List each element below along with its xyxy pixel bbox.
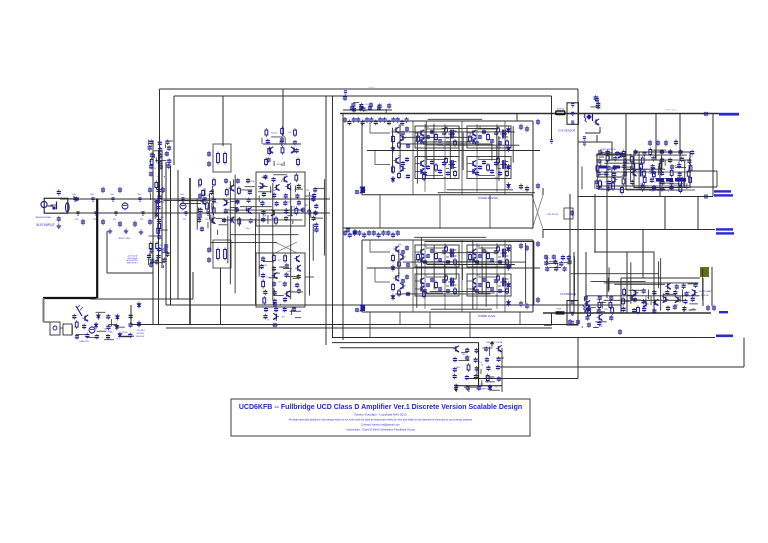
svg-text:C9: C9 xyxy=(501,279,503,281)
svg-text:POWER SLAVE: POWER SLAVE xyxy=(478,315,496,318)
svg-text:POWER MASTER: POWER MASTER xyxy=(478,197,498,200)
svg-text:BC546: BC546 xyxy=(633,293,639,295)
svg-text:100n: 100n xyxy=(108,331,112,333)
svg-text:+15V REG: +15V REG xyxy=(136,330,145,332)
svg-text:1N4148: 1N4148 xyxy=(495,147,501,149)
svg-text:4K7: 4K7 xyxy=(281,316,284,318)
svg-text:-15V REG: -15V REG xyxy=(136,333,145,335)
svg-text:D5: D5 xyxy=(286,275,288,277)
svg-text:R33: R33 xyxy=(621,307,624,309)
svg-text:Q7: Q7 xyxy=(425,275,427,277)
svg-text:R33: R33 xyxy=(692,309,695,311)
svg-text:100n: 100n xyxy=(266,277,270,279)
svg-text:100n: 100n xyxy=(72,194,76,196)
svg-text:100n: 100n xyxy=(197,208,201,210)
svg-text:C45: C45 xyxy=(495,266,498,268)
svg-text:47u: 47u xyxy=(313,230,316,232)
svg-text:10n: 10n xyxy=(281,145,284,147)
svg-text:R33: R33 xyxy=(601,189,604,191)
svg-text:47u: 47u xyxy=(365,104,368,106)
svg-text:4K7: 4K7 xyxy=(279,282,282,284)
svg-text:R33: R33 xyxy=(599,326,602,328)
svg-text:10n: 10n xyxy=(501,162,504,164)
svg-text:100R: 100R xyxy=(262,216,267,218)
svg-text:47u: 47u xyxy=(645,297,648,299)
svg-text:100n: 100n xyxy=(180,194,184,196)
svg-text:+ HVDC BUS: + HVDC BUS xyxy=(664,110,677,112)
svg-text:D5: D5 xyxy=(481,365,483,367)
svg-text:OFF RCVB: OFF RCVB xyxy=(547,214,559,216)
svg-text:LINE DRV: LINE DRV xyxy=(79,341,90,343)
svg-text:R12: R12 xyxy=(495,178,498,180)
svg-text:1N4148: 1N4148 xyxy=(261,265,267,267)
svg-text:C45: C45 xyxy=(261,280,264,282)
svg-text:R12: R12 xyxy=(113,325,116,327)
svg-text:1N4148: 1N4148 xyxy=(158,202,164,204)
svg-text:Kartino Surodipo - Copyright: Kartino Surodipo - Copyright NAV 2023 xyxy=(354,413,406,417)
svg-text:4K7: 4K7 xyxy=(278,260,281,262)
svg-text:100n: 100n xyxy=(425,127,429,129)
svg-text:4K7: 4K7 xyxy=(449,279,452,281)
svg-text:47u: 47u xyxy=(443,147,446,149)
svg-text:100R: 100R xyxy=(646,313,651,315)
svg-text:C45: C45 xyxy=(147,260,150,262)
svg-text:100n: 100n xyxy=(110,194,114,196)
svg-text:OCP SENSOR: OCP SENSOR xyxy=(558,129,575,133)
svg-text:100n: 100n xyxy=(137,194,141,196)
svg-text:10n: 10n xyxy=(288,201,291,203)
svg-text:R33: R33 xyxy=(596,96,599,98)
svg-text:100R: 100R xyxy=(456,367,461,369)
svg-text:R12: R12 xyxy=(477,275,480,277)
svg-text:R12: R12 xyxy=(364,111,367,113)
svg-text:100R: 100R xyxy=(160,217,165,219)
svg-text:XLR INPUT: XLR INPUT xyxy=(36,223,56,227)
svg-text:HIGH REP BUS: HIGH REP BUS xyxy=(476,389,492,391)
svg-text:47u: 47u xyxy=(600,321,603,323)
svg-text:UCD6KFB -- Fullbridge UCD Clas: UCD6KFB -- Fullbridge UCD Class D Amplif… xyxy=(239,404,522,411)
svg-text:D5: D5 xyxy=(465,358,467,360)
svg-text:10n: 10n xyxy=(443,295,446,297)
svg-text:BC546: BC546 xyxy=(271,132,277,134)
svg-text:2K2: 2K2 xyxy=(640,183,643,185)
svg-text:R12: R12 xyxy=(281,181,284,183)
svg-text:1N4148: 1N4148 xyxy=(605,182,611,184)
svg-text:Contact: kartino.sd@gmail.com: Contact: kartino.sd@gmail.com xyxy=(361,423,401,427)
svg-text:R12: R12 xyxy=(652,182,655,184)
svg-text:Q7: Q7 xyxy=(215,203,217,205)
svg-text:GND REF: GND REF xyxy=(136,336,145,338)
svg-text:2K2: 2K2 xyxy=(306,190,309,192)
svg-text:4K7: 4K7 xyxy=(305,205,308,207)
svg-text:47u: 47u xyxy=(158,229,161,231)
svg-text:R12: R12 xyxy=(596,299,599,301)
svg-text:BC546: BC546 xyxy=(249,181,255,183)
svg-text:SEE NOTE 3: SEE NOTE 3 xyxy=(127,262,138,264)
svg-text:BC546: BC546 xyxy=(277,164,283,166)
svg-text:10n: 10n xyxy=(462,354,465,356)
svg-text:10n: 10n xyxy=(477,158,480,160)
svg-text:+HVDC: +HVDC xyxy=(368,87,375,89)
svg-text:GEN SENSOR: GEN SENSOR xyxy=(601,149,616,151)
svg-text:BC546: BC546 xyxy=(122,332,128,334)
svg-text:2K2: 2K2 xyxy=(674,166,677,168)
svg-text:Indonesian - Class D Next Gene: Indonesian - Class D Next Generation Fee… xyxy=(346,428,415,432)
svg-text:R33: R33 xyxy=(152,168,155,170)
svg-text:1N4148: 1N4148 xyxy=(398,125,404,127)
svg-text:4K7: 4K7 xyxy=(443,178,446,180)
svg-text:Q7: Q7 xyxy=(449,250,451,252)
svg-text:R12: R12 xyxy=(586,304,589,306)
svg-text:4K7: 4K7 xyxy=(687,292,690,294)
svg-text:All ideas specially applied in: All ideas specially applied in this desi… xyxy=(289,418,473,422)
svg-text:D5: D5 xyxy=(561,257,563,259)
svg-text:100n: 100n xyxy=(90,194,94,196)
svg-text:C9: C9 xyxy=(566,264,568,266)
svg-text:AUDIO GND: AUDIO GND xyxy=(119,237,131,240)
svg-text:FUSE 6A: FUSE 6A xyxy=(557,108,565,111)
svg-text:47u: 47u xyxy=(546,258,549,260)
svg-text:GEN REPOSITA: GEN REPOSITA xyxy=(486,341,503,344)
svg-text:47u: 47u xyxy=(595,105,598,107)
svg-text:BALANCED/UNBAL: BALANCED/UNBAL xyxy=(36,216,51,219)
svg-text:D5: D5 xyxy=(425,246,427,248)
svg-text:100R: 100R xyxy=(148,145,153,147)
svg-text:100R: 100R xyxy=(287,271,292,273)
svg-text:CLASS-D/AMP: CLASS-D/AMP xyxy=(698,290,712,293)
svg-text:4K7: 4K7 xyxy=(154,262,157,264)
svg-text:100R: 100R xyxy=(271,190,276,192)
svg-text:2K2: 2K2 xyxy=(480,383,483,385)
svg-text:4K7: 4K7 xyxy=(683,161,686,163)
svg-text:R33: R33 xyxy=(675,304,678,306)
svg-text:R33: R33 xyxy=(292,206,295,208)
svg-text:D5: D5 xyxy=(480,362,482,364)
svg-text:100n: 100n xyxy=(246,228,250,230)
svg-text:C9: C9 xyxy=(267,320,269,322)
svg-text:D5: D5 xyxy=(116,339,118,341)
svg-text:10n: 10n xyxy=(501,250,504,252)
svg-text:C9: C9 xyxy=(495,387,497,389)
